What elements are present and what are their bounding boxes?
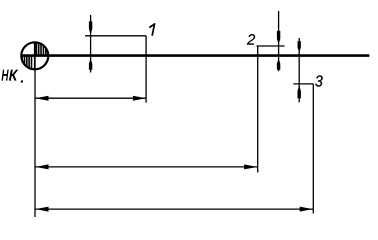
origin hatch upper-right quadrant	[36, 41, 45, 56]
point 2 arrow up	[277, 58, 280, 69]
origin hatch lower-left quadrant	[22, 56, 31, 71]
point 1 arrow down	[89, 21, 92, 34]
point 3 marker line	[298, 38, 300, 102]
origin crosshair vertical diameter	[34, 42, 36, 71]
label 3	[315, 75, 323, 86]
label 2	[247, 34, 255, 44]
point 2 marker line	[278, 11, 280, 71]
dimension line 3	[35, 207, 313, 212]
main axis line	[21, 54, 370, 57]
dimension line 2	[35, 164, 258, 169]
origin circle НК	[21, 42, 48, 69]
extension line from origin down	[34, 71, 36, 218]
leader bracket 2	[257, 46, 285, 172]
point 2 arrow down	[277, 31, 280, 45]
leader bracket 1	[85, 36, 146, 103]
point 1 arrow up	[89, 58, 92, 69]
point 3 arrow up	[298, 85, 301, 98]
dimension line 1	[35, 96, 146, 101]
label НК.	[2, 70, 23, 82]
point 3 arrow down	[298, 41, 301, 53]
label 1	[149, 24, 154, 36]
leader bracket 3	[293, 84, 313, 214]
point 1 marker line	[90, 15, 92, 73]
